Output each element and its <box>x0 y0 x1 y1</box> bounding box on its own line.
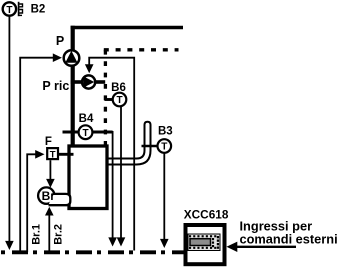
sensor B2 <box>3 2 16 15</box>
svg-text:Br.2: Br.2 <box>52 224 64 245</box>
wire: B2 sensor line <box>8 16 10 242</box>
arrow into pump P ric <box>85 64 94 73</box>
arrow into F <box>35 150 44 159</box>
burner Br <box>38 187 54 203</box>
wire: P ric control line <box>89 58 134 251</box>
svg-text:T: T <box>116 95 122 106</box>
burner Br duct to boiler <box>49 194 71 205</box>
svg-text:Br.1: Br.1 <box>30 224 42 245</box>
svg-text:P: P <box>56 34 64 48</box>
controller front panel <box>188 234 220 251</box>
flow switch F stub to boiler <box>58 153 74 156</box>
svg-text:T: T <box>161 142 167 153</box>
panel display <box>190 239 211 246</box>
arrow: B6 wire down <box>117 237 126 246</box>
arrow: B2 line down to bus <box>5 241 14 250</box>
svg-text:B3: B3 <box>158 126 173 138</box>
pump P ric stubs <box>71 80 82 84</box>
arrow into pump P <box>53 53 62 62</box>
wire: F to burner <box>49 160 51 179</box>
arrow up into burner <box>45 207 54 216</box>
wire: B6 line down to bus <box>120 104 122 238</box>
svg-text:T: T <box>50 150 56 161</box>
pipe: main vertical <box>71 26 75 147</box>
dashed demand line vertical <box>104 50 107 145</box>
sensor B4 line <box>63 131 113 134</box>
sensor B6 <box>113 93 127 107</box>
wire: Br.2 burner stage 2 <box>48 216 50 252</box>
chain: control bus dash-dot line <box>1 250 184 254</box>
flue pipe with chimney <box>107 122 151 165</box>
pump P <box>64 50 80 66</box>
panel top key row <box>189 235 216 237</box>
dashed demand line horizontal <box>104 48 179 51</box>
svg-text:B2: B2 <box>31 4 46 16</box>
arrow: B4 wire down <box>108 237 117 246</box>
panel right key column <box>217 236 219 249</box>
sensor B4 <box>79 125 93 139</box>
svg-text:comandi esterni: comandi esterni <box>240 232 338 247</box>
svg-text:B6: B6 <box>111 82 126 94</box>
controller XCC618 box <box>186 225 225 264</box>
arrow: B3 wire down <box>160 239 169 248</box>
svg-text:Br: Br <box>42 189 56 203</box>
pump P ric <box>82 75 95 88</box>
svg-text:T: T <box>6 5 12 16</box>
wire: Br.1 feed to flow switch F <box>27 154 35 252</box>
sensor B3 stub <box>142 145 159 148</box>
wire: B4 line down to bus <box>112 131 114 238</box>
wire: pump P control feed <box>20 58 53 252</box>
sensor B6 stub <box>105 98 114 101</box>
sensor B3 <box>158 139 172 153</box>
flow switch F <box>47 148 58 159</box>
boiler <box>69 146 107 209</box>
svg-text:T: T <box>82 128 88 139</box>
svg-text:F: F <box>45 136 52 148</box>
arrow into burner <box>46 179 55 188</box>
external inputs arrow <box>227 242 238 252</box>
pipe: top supply horizontal <box>71 26 183 30</box>
svg-text:XCC618: XCC618 <box>184 208 229 222</box>
wire: B3 line down to bus <box>163 152 165 240</box>
panel bottom key row <box>189 247 216 249</box>
svg-text:P ric: P ric <box>42 79 69 93</box>
svg-text:B4: B4 <box>79 113 94 125</box>
sensor B2 wall bracket <box>18 2 20 16</box>
